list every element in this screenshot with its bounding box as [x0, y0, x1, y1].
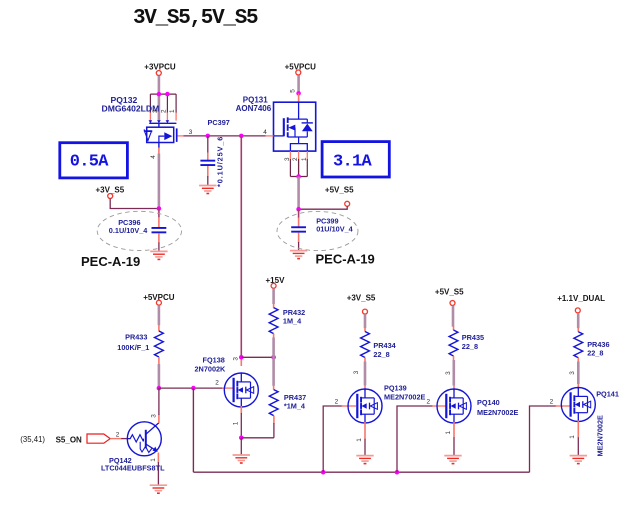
svg-text:2N7002K: 2N7002K — [195, 364, 227, 373]
pin stub PQ132 pin4 — [149, 113, 151, 121]
component PQ132 DMG6402LDM p-mosfet — [144, 120, 176, 147]
pin stub PR437 bottom — [273, 416, 275, 424]
svg-text:3: 3 — [569, 371, 576, 375]
svg-text:3: 3 — [233, 357, 240, 361]
wire PQ139 source to ground — [364, 439, 366, 455]
pin stub PQ139 source — [364, 422, 366, 439]
wire +5VPCU stem to PQ131 — [297, 75, 300, 93]
node junction dot rail to PQ140 — [395, 470, 400, 475]
svg-text:1: 1 — [150, 458, 157, 462]
ground below PQ139 — [356, 456, 373, 464]
svg-text:PQ131: PQ131 — [243, 95, 268, 104]
wire +3V_S5 stem — [364, 314, 367, 328]
net +5V_S5 flag circle — [450, 301, 455, 306]
svg-text:FQ138: FQ138 — [203, 355, 225, 364]
svg-text:0.5A: 0.5A — [70, 153, 110, 172]
svg-text:*0.1U/25V_6: *0.1U/25V_6 — [216, 136, 225, 187]
pin stub PQ131 pin3 bottom — [289, 151, 291, 159]
wire FQ138 drain to PR432 PR437 node — [241, 356, 273, 358]
net +5VPCU top terminal circle — [296, 70, 301, 75]
svg-text:1: 1 — [169, 109, 176, 113]
svg-text:PR437: PR437 — [284, 393, 306, 402]
pin stub PQ140 gate — [432, 405, 446, 407]
svg-text:2: 2 — [335, 399, 339, 406]
ground below PC396 — [150, 251, 167, 259]
svg-text:DMG6402LDM: DMG6402LDM — [102, 104, 160, 114]
node junction dot PC397 net at cap branch — [206, 134, 211, 139]
pin stub PC399 top — [298, 218, 300, 227]
svg-text:2: 2 — [116, 432, 120, 439]
svg-text:ME2N7002E: ME2N7002E — [477, 408, 519, 417]
current box 3.1A — [322, 142, 389, 177]
wire PR437 bottom to FQ138 source — [273, 423, 275, 438]
net +5V_S5 terminal circle — [345, 201, 350, 206]
pin stub PC397 top — [207, 153, 209, 161]
pin stub PQ132 pin1 — [175, 113, 177, 121]
node junction dot PQ131 pin5 — [296, 91, 301, 96]
wire PQ131 bottom loop right — [306, 159, 308, 177]
pin stub PQ139 drain — [364, 385, 366, 391]
svg-text:PEC-A-19: PEC-A-19 — [316, 251, 375, 266]
wire node down to PR437 — [272, 357, 275, 386]
wire PC399 stem — [298, 209, 300, 218]
pin stub PR436 top — [577, 328, 579, 332]
pin stub FQ138 drain — [240, 357, 242, 366]
wire PQ131 bottom loop horizontal — [290, 176, 307, 178]
pin stub PQ131 pin2 bottom — [298, 151, 300, 159]
pin stub PQ142 emitter — [157, 453, 159, 463]
svg-text:S5_ON: S5_ON — [56, 435, 82, 444]
node junction dot PQ132 pin3 top — [157, 92, 162, 97]
svg-text:LTC044EUBFS8TL: LTC044EUBFS8TL — [101, 464, 165, 473]
svg-text:4: 4 — [263, 129, 267, 136]
node junction dot PQ132 pin2 top — [165, 92, 170, 97]
pin stub PR432 bottom — [273, 334, 275, 338]
svg-text:100K/F_1: 100K/F_1 — [117, 343, 149, 352]
svg-text:3: 3 — [150, 414, 157, 418]
svg-text:PQ140: PQ140 — [477, 398, 500, 407]
wire PR434 to PQ139 — [364, 362, 367, 386]
pin stub PQ141 gate — [556, 405, 570, 407]
svg-text:3: 3 — [353, 370, 360, 374]
svg-text:PR434: PR434 — [373, 341, 396, 350]
transistor PQ140 n-mosfet — [437, 389, 471, 423]
wire +5V_S5 terminal stem — [299, 206, 348, 209]
wire PR435 to PQ140 — [452, 360, 455, 386]
wire +5V_S5 stem — [452, 306, 455, 327]
svg-text:+3V_S5: +3V_S5 — [347, 294, 376, 303]
resistor PR432 — [269, 308, 278, 334]
net +15V terminal circle — [271, 283, 276, 288]
wire PC396 ground stem — [158, 243, 160, 252]
wire PQ131 pin2 down — [298, 159, 300, 177]
svg-text:2: 2 — [550, 399, 554, 406]
svg-text:3: 3 — [189, 129, 193, 136]
wire FQ138 source to PR437 bottom — [241, 437, 274, 439]
wire net PC397 horizontal — [184, 135, 266, 137]
node junction dot PR432 PR437 — [271, 355, 276, 360]
pin stub PQ142 base — [121, 438, 128, 440]
svg-text:3: 3 — [284, 157, 291, 161]
net +5VPCU bottom terminal circle — [156, 300, 161, 305]
wire PQ132 source down to +3V_S5 node — [158, 154, 161, 209]
svg-text:*1M_4: *1M_4 — [284, 402, 306, 411]
wire PC399 ground stem — [298, 242, 300, 250]
node junction dot FQ138 drain — [239, 355, 244, 360]
wire riser PQ139 gate — [323, 406, 342, 472]
resistor PR436 — [574, 332, 583, 358]
node junction dot PR433 PQ142 FQ138 gate — [157, 386, 162, 391]
svg-text:+5V_S5: +5V_S5 — [325, 185, 354, 194]
capacitor PC396 — [152, 227, 167, 233]
wire FQ138 ground stem — [240, 438, 242, 455]
wire PR433 to gate node — [158, 364, 161, 388]
wire +3V_S5 terminal stem — [110, 199, 159, 209]
wire PQ140 source to ground — [453, 437, 455, 455]
transistor PQ141 n-mosfet — [561, 388, 595, 422]
svg-text:3V_S5,5V_S5: 3V_S5,5V_S5 — [133, 7, 258, 30]
pin stub PR436 bottom — [577, 358, 579, 362]
svg-text:+5V_S5: +5V_S5 — [435, 288, 464, 297]
pin stub PQ141 source — [577, 421, 579, 438]
svg-text:ME2N7002E: ME2N7002E — [384, 392, 426, 401]
resistor PR434 — [361, 332, 370, 358]
wire PC397 ground stem — [207, 176, 209, 185]
dashed ellipse around PC399 — [277, 211, 358, 250]
net +3VPCU terminal circle — [156, 71, 161, 76]
svg-text:AON7406: AON7406 — [236, 104, 272, 113]
transistor PQ142 LTC044EUBFS8TL digital npn — [127, 422, 161, 456]
ground below PQ140 — [444, 456, 461, 464]
svg-text:2: 2 — [427, 399, 431, 406]
pin stub PQ131 pin5 — [298, 93, 300, 102]
node junction dot FQ138 source — [239, 436, 244, 441]
dashed ellipse around PC396 — [97, 211, 181, 250]
svg-text:1: 1 — [445, 431, 452, 435]
resistor PR437 — [269, 390, 278, 416]
wire PQ132 top loop vertical pin2 — [166, 94, 168, 113]
wire +15V stem — [272, 289, 275, 305]
wire +1.1V_DUAL stem — [577, 313, 580, 328]
svg-text:0.1U/10V_4: 0.1U/10V_4 — [109, 226, 148, 235]
node junction dot PQ131 output — [296, 174, 301, 179]
capacitor PC397 — [200, 160, 215, 166]
svg-text:5: 5 — [290, 89, 297, 93]
svg-text:2: 2 — [215, 380, 219, 387]
svg-text:3: 3 — [445, 371, 452, 375]
pin stub PR437 top — [273, 385, 275, 390]
svg-text:PQ139: PQ139 — [384, 383, 407, 392]
wire PQ132 top loop vertical pin4 — [149, 94, 151, 113]
ground below PC397 — [199, 186, 216, 194]
node junction dot PC397 net at mid vertical — [239, 134, 244, 139]
svg-text:PEC-A-19: PEC-A-19 — [81, 254, 140, 269]
wire PR432 down to node — [272, 338, 275, 358]
pin stub PC396 bottom — [158, 233, 160, 243]
svg-text:22_8: 22_8 — [587, 349, 603, 358]
ground below PQ141 — [570, 456, 587, 464]
pin stub PR435 top — [453, 326, 455, 330]
transistor FQ138 n-mosfet — [224, 373, 258, 407]
wire PC397 cap stem — [207, 136, 209, 153]
svg-text:PC397: PC397 — [208, 118, 230, 127]
svg-text:1: 1 — [569, 435, 576, 439]
wire PR436 to PQ141 — [577, 362, 580, 385]
current box 0.5A — [60, 143, 128, 178]
wire gate net down to bottom rail — [192, 388, 194, 472]
svg-text:PQ141: PQ141 — [596, 390, 619, 399]
resistor PR435 — [449, 330, 458, 356]
svg-text:3.1A: 3.1A — [333, 152, 373, 171]
wire +5V_S5 vertical — [297, 177, 300, 210]
pin stub PQ139 gate — [342, 405, 357, 407]
wire PQ132 top loop horizontal — [150, 93, 176, 95]
transistor PQ139 n-mosfet — [348, 389, 382, 423]
pin stub PR432 top — [273, 304, 275, 308]
node junction dot gate net branch down — [191, 386, 196, 391]
wire PC396 stem — [158, 209, 160, 218]
svg-text:+1.1V_DUAL: +1.1V_DUAL — [557, 294, 605, 303]
svg-text:1: 1 — [356, 438, 363, 442]
pin stub PR435 bottom — [453, 356, 455, 361]
off-page connector S5_ON — [87, 434, 110, 443]
wire bottom gate rail horizontal — [193, 471, 529, 473]
pin stub PQ140 source — [453, 422, 455, 438]
net +1.1V_DUAL flag circle — [575, 308, 580, 313]
svg-text:2: 2 — [161, 109, 168, 113]
pin stub FQ138 source — [240, 406, 242, 414]
wire PQ142 collector up to gate node — [158, 388, 160, 415]
node junction dot rail to PQ139 — [321, 470, 326, 475]
pin stub PR433 bottom — [158, 357, 160, 365]
wire FQ138 source down — [240, 413, 242, 438]
svg-text:+3VPCU: +3VPCU — [144, 62, 176, 71]
ground below FQ138 — [233, 455, 250, 463]
net +3V_S5 flag circle — [363, 309, 368, 314]
wire PQ132 top loop vertical pin1 — [175, 94, 177, 113]
svg-text:1M_4: 1M_4 — [283, 316, 302, 325]
pin stub PQ141 drain — [577, 384, 579, 390]
pin stub PQ142 collector — [158, 415, 160, 424]
wire PQ141 source to ground — [577, 437, 579, 455]
svg-text:(35,41): (35,41) — [20, 435, 45, 444]
wire +3VPCU stem down to PQ132 — [158, 76, 161, 121]
net +3V_S5 terminal circle — [108, 194, 113, 199]
node junction dot +5V_S5 at PC399 — [296, 207, 301, 212]
svg-text:01U/10V_4: 01U/10V_4 — [316, 224, 353, 233]
pin stub PQ131 pin1 bottom — [306, 151, 308, 159]
pin stub PR434 bottom — [364, 358, 366, 363]
svg-text:1: 1 — [232, 421, 239, 425]
capacitor PC399 — [291, 226, 306, 232]
wire +5VPCU stem to PR433 — [158, 305, 161, 325]
pin stub PC399 bottom — [298, 233, 300, 243]
pin stub PQ132 pin3 right — [178, 135, 184, 137]
pin stub PR434 top — [364, 328, 366, 332]
component PQ131 AON7406 mosfet — [274, 102, 316, 151]
pin stub PQ131 pin4 — [266, 135, 274, 137]
pin stub PQ132 pin4 bottom — [158, 148, 160, 155]
wire mid vertical PC397 to FQ138 drain — [240, 136, 242, 357]
pin stub PQ132 pin2 — [166, 113, 168, 121]
ground below PQ142 — [150, 485, 167, 493]
svg-text:PR433: PR433 — [125, 333, 147, 342]
wire riser PQ141 gate — [530, 406, 557, 472]
node junction dot +3V_S5 at PC396 — [157, 206, 162, 211]
pin stub PQ140 drain — [453, 385, 455, 391]
pin stub PC397 bottom — [207, 166, 209, 177]
wire PQ131 bottom loop left — [289, 159, 291, 177]
pin stub PR433 top — [158, 325, 160, 331]
wire PQ142 emitter to ground — [157, 462, 159, 485]
wire gate node horizontal to FQ138 — [159, 387, 224, 389]
svg-text:3: 3 — [152, 109, 159, 113]
resistor PR433 — [155, 331, 164, 357]
ground below PC399 — [290, 251, 307, 259]
svg-text:4: 4 — [150, 155, 157, 159]
wire riser PQ140 gate — [397, 406, 433, 472]
svg-text:ME2N7002E: ME2N7002E — [596, 415, 605, 457]
pin stub FQ138 gate — [222, 387, 233, 389]
wire S5_ON to PQ142 — [110, 438, 122, 440]
svg-text:22_8: 22_8 — [373, 350, 389, 359]
svg-text:22_8: 22_8 — [462, 342, 478, 351]
pin stub PC396 top — [158, 217, 160, 227]
svg-text:+5VPCU: +5VPCU — [285, 62, 317, 71]
